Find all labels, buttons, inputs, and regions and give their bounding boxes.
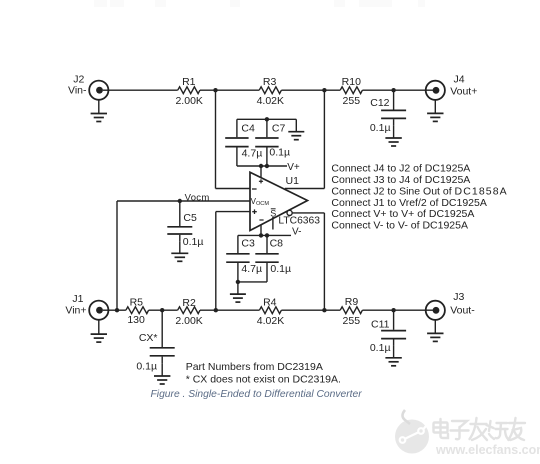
label R3 [263,76,277,88]
svg-text:4.7µ: 4.7µ [241,263,262,275]
note connect line 6 [331,220,468,232]
capacitor CX [150,310,175,364]
wire IN+ net [216,212,250,311]
ground under CX [154,364,170,384]
label 130 [127,314,145,326]
svg-text:V-: V- [292,226,301,237]
wire R4 to R9 [281,309,340,311]
note connect line 1 [331,163,470,175]
op-amp minus sign bottom (V-) [259,219,263,221]
label J2 [73,73,84,85]
svg-text:* CX does not exist on DC2319A: * CX does not exist on DC2319A. [186,373,341,385]
node CX junction [160,308,164,312]
ground under J4 [427,100,443,122]
capacitor C5 [167,201,192,241]
node C5 junction [178,199,182,203]
resistor R10 [340,87,362,94]
node C12 junction [391,88,395,92]
svg-text:Vout+: Vout+ [450,86,477,98]
capacitor C4 [225,119,248,166]
node Vocm/J1 junction [115,308,119,312]
label C5 [183,212,197,224]
node R2/R4/IN+ junction [214,308,218,312]
op-amp plus input sign [252,209,257,214]
resistor R3 [259,87,281,94]
wire C3/C8 bottom [238,281,267,283]
svg-text:Vout-: Vout- [450,304,475,316]
svg-text:130: 130 [127,314,145,326]
svg-text:V+: V+ [287,162,300,173]
connector J4 [426,81,445,100]
svg-text:R2: R2 [182,297,196,309]
wire V+ rail [237,165,287,167]
label 0.1u (C8) [270,263,291,275]
note connect line 3 [331,185,507,197]
label Vout+ [450,86,477,98]
resistor R5 [126,307,149,314]
svg-text:R3: R3 [263,76,277,88]
wire R9 to J3 [362,309,435,311]
connector J2 [89,81,108,100]
svg-text:0.1µ: 0.1µ [183,236,204,248]
op-amp output bubble [287,210,292,215]
label C8 [270,238,284,250]
svg-text:0.1µ: 0.1µ [269,147,290,159]
label R9 [345,296,359,308]
note connect line 4 [331,197,486,209]
label C7 [272,123,286,135]
svg-text:0.1µ: 0.1µ [370,122,391,134]
svg-text:Figure . Single-Ended to Diffe: Figure . Single-Ended to Differential Co… [151,389,363,400]
label 2.00K [175,95,202,107]
svg-text:4.7µ: 4.7µ [242,147,263,159]
label V+ [287,162,300,173]
svg-text:VOCM: VOCM [251,197,270,207]
node C11 junction [391,308,395,312]
capacitor C3 [226,235,249,282]
label 0.1u (CX) [136,361,157,373]
svg-text:J3: J3 [453,291,464,303]
op-amp plus sign top (V+) [259,179,263,183]
label 4.7u (C3) [241,263,262,275]
label U1 [286,175,300,187]
label 2.00K (R2) [175,315,202,327]
svg-text:R9: R9 [345,296,359,308]
node ground junction C3 [236,280,240,284]
ground under C12 [385,126,401,146]
wire Vocm rail [117,201,250,310]
wire R5 to R2 [149,309,178,311]
label CX* [139,332,158,344]
svg-text:Part Numbers from DC2319A: Part Numbers from DC2319A [186,361,323,373]
wire R10 to J4 [362,89,435,91]
label C12 [370,97,389,109]
node C7 top junction [265,117,269,121]
label 4.7u (C4) [242,147,263,159]
label R1 [182,76,196,88]
ground right of C7 [288,119,304,139]
svg-text:C11: C11 [371,319,390,331]
svg-text:2.00K: 2.00K [175,95,202,107]
label 4.02K (R4) [257,315,284,327]
note part numbers [186,361,323,373]
capacitor C12 [381,90,406,126]
label C3 [241,238,255,250]
svg-text:J2: J2 [73,73,84,85]
ground under J3 [427,320,443,342]
svg-text:C4: C4 [241,123,255,135]
svg-text:www.elecfans.com: www.elecfans.com [435,443,540,457]
label R10 [342,76,361,88]
svg-text:255: 255 [343,315,361,327]
svg-text:2.00K: 2.00K [175,315,202,327]
wire R3 to R10 [281,89,340,91]
wire J2 to R1 [103,89,178,91]
label 255 (R10) [343,95,361,107]
svg-text:J4: J4 [454,74,465,86]
note connect line 2 [331,174,470,186]
svg-text:LTC6363: LTC6363 [278,215,320,226]
svg-text:R10: R10 [342,76,361,88]
svg-text:Vocm: Vocm [185,193,210,204]
svg-text:R5: R5 [130,297,144,309]
svg-text:U1: U1 [286,175,300,187]
ground under J1 [91,320,107,342]
svg-text:C3: C3 [241,238,255,250]
node V+ pin junction [259,164,263,168]
wire OUT bottom feedback [292,213,324,310]
wire IN- net [216,90,251,188]
svg-text:Connect J4 to J2 of DC1925A: Connect J4 to J2 of DC1925A [331,163,470,175]
svg-text:S: S [270,208,276,218]
resistor R9 [340,307,362,314]
svg-text:255: 255 [343,95,361,107]
ground under C11 [385,346,401,366]
label J3 [453,291,464,303]
label Vout- [450,304,475,316]
node C7 bottom junction [265,164,269,168]
wire R2 to R4 [200,309,259,311]
label V- [292,226,301,237]
label 0.1u (C11) [370,342,391,354]
watermark remnant strip at top edge [94,0,425,7]
label Vin- [68,85,87,97]
wire J1 to R5 [103,309,126,311]
op-amp V- power pin [260,225,262,236]
svg-text:Vin-: Vin- [68,85,87,97]
connector J1 [89,301,108,320]
svg-text:R1: R1 [182,76,196,88]
watermark elecfans chinese characters (drawn strokes) [434,418,526,440]
node R1/R3/IN- junction [213,88,217,92]
label C4 [241,123,255,135]
svg-text:0.1µ: 0.1µ [370,342,391,354]
label 0.1u (C12) [370,122,391,134]
label Vin+ [65,305,86,317]
wire C4/C7 top to ground [237,118,296,120]
wire OUT top feedback [285,90,325,188]
resistor R4 [259,307,281,314]
wire R1 to R3 [200,89,259,91]
op-amp minus input sign [252,188,257,190]
svg-text:C7: C7 [272,123,286,135]
watermark elecfans logo [395,410,429,454]
op-amp V+ power pin [260,166,262,178]
svg-text:Vin+: Vin+ [65,305,86,317]
op-amp Vocm label inside [251,197,270,207]
svg-text:4.02K: 4.02K [257,315,284,327]
label LTC6363 [278,215,320,226]
op-amp shutdown pin S [272,217,274,230]
svg-text:CX*: CX* [139,332,158,344]
label R4 [263,297,277,309]
svg-text:Connect V- to V- of DC1925A: Connect V- to V- of DC1925A [331,220,468,232]
label R2 [182,297,196,309]
capacitor C8 [255,235,278,282]
op-amp U1 triangle [250,172,308,230]
svg-text:Connect V+ to V+ of DC1925A: Connect V+ to V+ of DC1925A [331,208,474,220]
label J4 [454,74,465,86]
label J1 [72,293,83,305]
label 0.1u (C7) [269,147,290,159]
label R5 [130,297,144,309]
svg-text:Connect J3 to J4 of DC1925A: Connect J3 to J4 of DC1925A [331,174,470,186]
node R3/R10/OUT+ junction [322,88,326,92]
svg-text:C8: C8 [270,238,284,250]
ground under J2 [91,100,107,122]
svg-text:C5: C5 [183,212,197,224]
figure caption [151,389,363,400]
ground under C3 [230,282,246,302]
svg-text:Connect J1 to Vref/2 of DC1925: Connect J1 to Vref/2 of DC1925A [331,197,486,209]
capacitor C11 [381,310,406,345]
capacitor C7 [255,119,278,166]
wire V- rail [238,234,291,236]
note connect line 5 [331,208,474,220]
svg-text:J1: J1 [72,293,83,305]
label Vocm [185,193,210,204]
svg-text:Connect J2 to Sine Out of DC18: Connect J2 to Sine Out of DC1858A [331,185,507,197]
node C8 top junction [265,233,269,237]
ground under C5 [171,241,188,261]
label C11 [371,319,390,331]
svg-text:0.1µ: 0.1µ [136,361,157,373]
label 0.1u (C5) [183,236,204,248]
label 4.02K [257,95,284,107]
svg-text:C12: C12 [370,97,389,109]
node R4/R9/OUT- junction [322,308,326,312]
svg-text:0.1µ: 0.1µ [270,263,291,275]
svg-text:4.02K: 4.02K [257,95,284,107]
note CX does not exist [186,373,341,385]
resistor R2 [178,307,200,314]
svg-text:R4: R4 [263,297,277,309]
label S with overbar [270,208,276,218]
node V- pin junction [259,233,263,237]
connector J3 [426,301,445,320]
label 255 (R9) [343,315,361,327]
resistor R1 [178,87,200,94]
